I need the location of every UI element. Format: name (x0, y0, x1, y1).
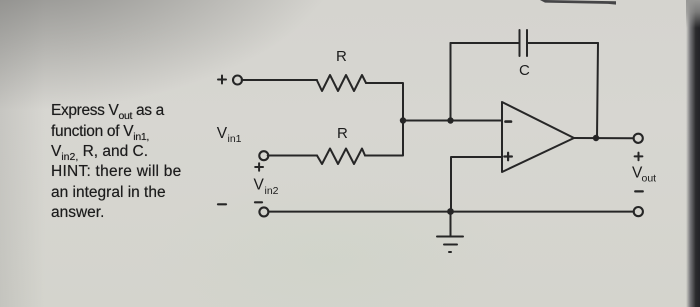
svg-text:C: C (519, 62, 530, 79)
wire input1 to R1 (242, 79, 317, 81)
wire bottom rail (268, 211, 633, 213)
label R (R2) (337, 125, 348, 142)
terminal output - (634, 207, 643, 216)
node junction dot C (output feedback tap) (593, 135, 599, 141)
minus sign of Vin1 source (218, 203, 226, 205)
terminal output + (634, 134, 643, 143)
resistor R2 (317, 149, 365, 165)
label R (R1) (336, 48, 347, 65)
plus sign of Vout (635, 153, 643, 161)
label Vout (632, 164, 656, 184)
wire R2 to sum node (365, 121, 403, 156)
svg-text:in1: in1 (228, 133, 242, 145)
terminal input 2 (259, 151, 268, 160)
node junction dot D (ground tap) (447, 208, 454, 215)
label Vin2 (254, 176, 279, 197)
wire R1 to corner (366, 83, 403, 121)
op-amp plus pin label (504, 153, 512, 161)
plus sign of Vin2 source (255, 163, 263, 171)
ground symbol (437, 212, 463, 253)
svg-text:in2: in2 (265, 185, 279, 197)
wire feedback top left (451, 42, 520, 44)
wire feedback left vertical (450, 43, 452, 121)
op-amp minus pin label (506, 120, 512, 123)
svg-text:out: out (642, 173, 657, 185)
wire noninverting input (451, 157, 502, 212)
label Vin1 (217, 125, 242, 145)
plus sign of Vin1 source (218, 76, 226, 84)
problem statement text (51, 101, 241, 223)
minus sign of Vout (635, 190, 643, 192)
op-amp U1 (502, 102, 574, 172)
svg-text:R: R (337, 125, 348, 142)
label C (519, 62, 530, 79)
minus sign of Vin2 source (255, 201, 262, 203)
capacitor C1 plates (520, 30, 528, 56)
terminal input 1 (233, 76, 242, 85)
wire inverting input (403, 120, 502, 122)
svg-text:V: V (217, 125, 228, 142)
resistor R1 (317, 75, 366, 91)
wire feedback top right (527, 42, 598, 44)
terminal bottom left (259, 207, 268, 216)
wire op-amp output (574, 137, 634, 139)
wire input2 to R2 (268, 155, 317, 157)
svg-text:V: V (254, 176, 265, 193)
dark window-edge wedge top right (540, 0, 630, 8)
dark screen bezel right edge (686, 0, 700, 307)
node junction dot B (feedback tap) (447, 117, 453, 123)
svg-text:R: R (336, 48, 347, 65)
node junction dot A (sum node left) (400, 117, 406, 123)
wire feedback right vertical (597, 43, 598, 138)
